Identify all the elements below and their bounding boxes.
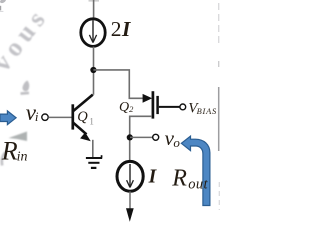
base wire xyxy=(48,116,71,118)
wire junction to Q2 source xyxy=(93,70,143,98)
vi terminal xyxy=(42,114,48,120)
wire to vo terminal xyxy=(130,136,153,138)
svg-text:in: in xyxy=(17,150,28,165)
svg-text:R: R xyxy=(1,137,18,166)
wire current source to junction and collector xyxy=(93,47,95,95)
svg-text:R: R xyxy=(171,166,187,192)
top rail stub xyxy=(89,0,100,2)
input arrow Rin xyxy=(0,111,16,125)
output resistance arrow Rout xyxy=(181,136,210,205)
svg-text:out: out xyxy=(188,177,208,193)
right edge brace line xyxy=(218,3,221,210)
current source I xyxy=(117,161,143,191)
Q2 drain lead xyxy=(130,116,152,162)
output node dot xyxy=(127,134,133,140)
Q1 collector xyxy=(73,95,93,112)
VBIAS terminal xyxy=(180,104,186,110)
svg-text:1: 1 xyxy=(89,116,94,126)
bottom rail arrowhead xyxy=(126,208,134,222)
wire top to current source xyxy=(93,0,95,20)
watermark fragment comma xyxy=(20,81,29,95)
svg-text:o: o xyxy=(173,135,180,150)
svg-text:2I: 2I xyxy=(111,17,131,41)
svg-text:Q: Q xyxy=(77,109,88,125)
svg-text:vous: vous xyxy=(0,1,54,76)
svg-text:Q2: Q2 xyxy=(119,100,134,115)
transistor Q2 channel bar xyxy=(152,91,155,118)
Q2 source arrowhead xyxy=(143,94,153,103)
watermark letter fragment top edge xyxy=(0,0,7,4)
Q1 emitter xyxy=(73,122,87,134)
Q2 gate lead xyxy=(159,106,180,108)
watermark edge marks top-left corner xyxy=(0,6,3,12)
wire to bottom rail xyxy=(129,191,131,209)
svg-text:I: I xyxy=(148,167,158,188)
emitter wire xyxy=(92,140,94,158)
watermark wedge near Rin xyxy=(9,132,28,142)
svg-text:i: i xyxy=(35,109,39,124)
junction node dot xyxy=(90,67,96,73)
vo terminal xyxy=(153,134,159,140)
transistor Q1 base bar xyxy=(71,104,74,129)
Q1 emitter arrowhead xyxy=(80,132,91,141)
watermark arc bottom-left xyxy=(2,152,7,166)
ground xyxy=(86,155,102,168)
current source 2I xyxy=(81,19,105,47)
svg-text:BIAS: BIAS xyxy=(197,107,217,116)
transistor Q2 gate bar xyxy=(156,96,159,114)
